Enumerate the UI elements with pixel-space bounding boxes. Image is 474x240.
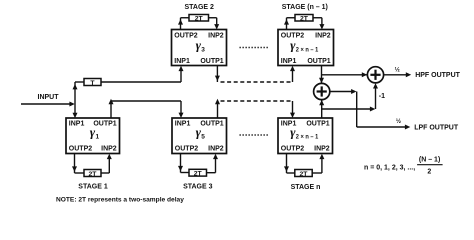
svg-text:HPF OUTPUT: HPF OUTPUT [415,72,460,79]
svg-text:LPF OUTPUT: LPF OUTPUT [414,125,459,132]
svg-text:2 × n – 1: 2 × n – 1 [296,46,319,53]
svg-text:OUTP1: OUTP1 [200,121,223,128]
svg-text:2: 2 [427,168,431,175]
svg-text:2T: 2T [195,15,204,22]
svg-text:(N – 1): (N – 1) [419,156,440,163]
svg-text:STAGE 1: STAGE 1 [78,184,108,191]
svg-text:INP1: INP1 [174,58,190,65]
svg-text:OUTP2: OUTP2 [69,146,92,153]
svg-text:STAGE 2: STAGE 2 [184,4,214,11]
svg-text:2T: 2T [300,15,309,22]
svg-text:STAGE n: STAGE n [291,184,321,191]
svg-text:INP2: INP2 [101,146,117,153]
svg-text:OUTP2: OUTP2 [174,32,197,39]
svg-text:-1: -1 [379,93,385,100]
svg-text:NOTE: 2T represents a two-samp: NOTE: 2T represents a two-sample delay [56,196,184,203]
svg-text:OUTP2: OUTP2 [175,146,198,153]
svg-text:OUTP1: OUTP1 [307,58,330,65]
svg-text:INP2: INP2 [208,146,224,153]
svg-text:2T: 2T [89,171,98,178]
svg-text:n = 0, 1, 2, 3, ...,: n = 0, 1, 2, 3, ..., [364,164,415,171]
svg-text:OUTP1: OUTP1 [306,121,329,128]
svg-text:OUTP1: OUTP1 [200,58,223,65]
svg-text:INP2: INP2 [314,146,330,153]
svg-text:2T: 2T [194,171,203,178]
svg-text:3: 3 [201,46,205,53]
svg-text:STAGE (n – 1): STAGE (n – 1) [282,4,328,11]
svg-text:INP1: INP1 [69,121,85,128]
svg-text:2T: 2T [300,171,309,178]
svg-text:5: 5 [201,134,205,141]
svg-text:INP2: INP2 [315,32,331,39]
svg-text:STAGE 3: STAGE 3 [183,184,213,191]
svg-text:INP1: INP1 [281,58,297,65]
svg-text:OUTP1: OUTP1 [93,121,116,128]
svg-text:½: ½ [396,118,401,125]
svg-text:INPUT: INPUT [38,94,60,101]
svg-text:½: ½ [395,67,400,74]
svg-text:INP2: INP2 [208,32,224,39]
svg-text:INP1: INP1 [175,121,191,128]
svg-text:2 × n – 1: 2 × n – 1 [296,134,319,141]
svg-text:OUTP2: OUTP2 [281,146,304,153]
svg-text:1: 1 [96,134,100,141]
